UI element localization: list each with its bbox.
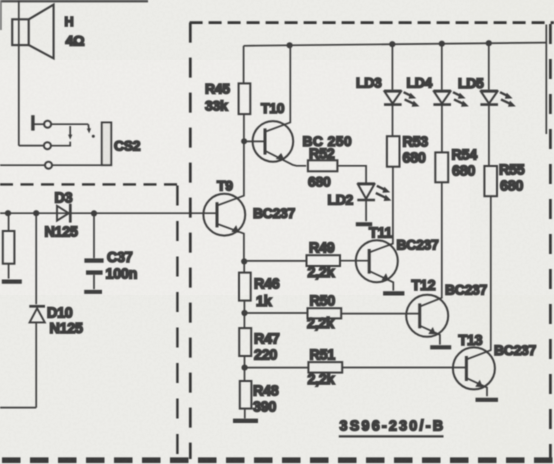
node rail LD4 — [439, 41, 445, 47]
resistor R51 — [245, 362, 466, 373]
resistor R48 — [240, 381, 252, 409]
transistor T12 — [406, 182, 448, 344]
resistor R53 — [387, 136, 400, 167]
resistor R45 — [239, 46, 251, 140]
ground T11 — [383, 291, 404, 295]
capacitor C37 — [84, 213, 103, 289]
ground chain — [233, 409, 258, 421]
wire D10 to left edge — [0, 407, 36, 409]
transistor T9 — [203, 141, 245, 261]
LED LD4 — [433, 44, 468, 153]
left dashed box border — [0, 184, 178, 459]
wire tip contact right — [51, 123, 88, 125]
speck — [92, 135, 95, 138]
resistor R47 — [239, 328, 251, 381]
diode D10 — [29, 213, 45, 407]
LED LD3 — [384, 44, 419, 136]
wire rail right drop — [545, 25, 547, 135]
wire ring contact right — [51, 142, 70, 146]
underline — [339, 435, 444, 437]
jack sleeve contact circle — [45, 162, 52, 169]
wire supply rail — [244, 43, 547, 46]
right dashed box border — [190, 23, 554, 459]
node rail LD5 — [486, 40, 492, 46]
ground T12 — [430, 345, 451, 349]
node rail LD3 — [389, 41, 395, 47]
resistor R50 — [245, 308, 419, 318]
jack tip contact circle — [44, 121, 51, 128]
node junction D10 branch — [33, 210, 39, 216]
node junction left — [5, 210, 11, 216]
transistor T11 — [356, 167, 398, 291]
ground T13 — [476, 398, 499, 402]
speaker H — [12, 5, 53, 59]
resistor R46 — [239, 261, 251, 328]
scan edge artifact top — [0, 0, 148, 2]
node chain 1 — [241, 258, 247, 264]
jack ring contact circle — [44, 142, 51, 149]
jack CS2 plate — [102, 123, 111, 166]
ground — [2, 280, 22, 284]
node rail T10 — [287, 42, 293, 48]
wire speaker to ring contact — [19, 145, 44, 147]
wire bar to tip contact — [35, 123, 45, 125]
LED LD2 — [337, 166, 391, 221]
transistor T13 — [453, 196, 495, 396]
switch arrow — [69, 126, 71, 135]
resistor R52 — [308, 160, 338, 171]
bottom dashed border — [2, 457, 554, 463]
diode D3 — [57, 204, 70, 223]
jack CS2 contact bar — [31, 115, 34, 130]
resistor R49 — [244, 255, 368, 266]
transistor T10 — [244, 45, 306, 166]
ground LD2 — [356, 222, 372, 226]
wire speaker feed — [18, 0, 20, 146]
wire sleeve line — [0, 164, 45, 166]
wire main signal line — [0, 212, 217, 214]
node chain 2 — [241, 310, 247, 316]
LED LD5 — [480, 43, 515, 166]
resistor R55 — [484, 166, 497, 196]
resistor left edge — [3, 213, 15, 278]
node T10 base — [241, 138, 247, 144]
plug actuation arrow — [87, 124, 90, 129]
node junction C37 branch — [91, 210, 97, 216]
resistor R54 — [435, 152, 448, 182]
node chain 3 — [242, 365, 248, 371]
scan edge artifact left — [0, 0, 2, 30]
ground — [84, 290, 102, 294]
